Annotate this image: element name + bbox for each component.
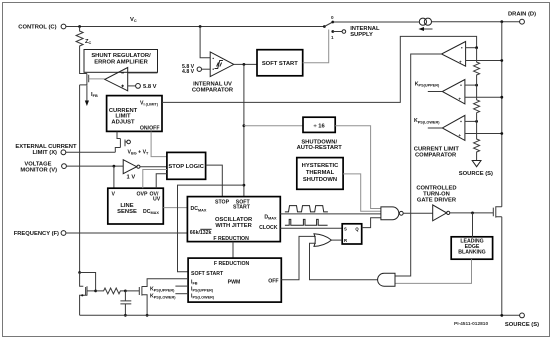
svg-text:4.8 V: 4.8 V	[182, 69, 195, 75]
wire divide16 to NAND	[335, 126, 381, 209]
svg-text:ERROR AMPLIFIER: ERROR AMPLIFIER	[94, 60, 148, 66]
wire Ifb with arrow	[86, 86, 88, 102]
svg-text:SOURCE (S): SOURCE (S)	[459, 171, 493, 177]
ground SOURCE (S) upper	[472, 161, 481, 167]
svg-text:+: +	[458, 97, 461, 102]
svg-text:INTERNAL UV: INTERNAL UV	[193, 81, 232, 87]
svg-text:SOFT START: SOFT START	[191, 271, 224, 277]
node chain taps	[475, 46, 478, 49]
transistor power MOSFET	[493, 206, 502, 217]
wire thermal shutdown to NAND	[343, 174, 381, 211]
node source junction	[500, 314, 503, 317]
wire threshold to UV comparator	[202, 68, 211, 70]
wire Vc to UV comparator input	[200, 27, 210, 58]
pin SOURCE (S) terminal bottom	[520, 313, 525, 318]
wire gate driver to power MOSFET gate	[450, 212, 494, 214]
svg-text:ADJUST: ADJUST	[111, 119, 135, 125]
node C junction	[78, 25, 81, 28]
wire NAND to gate driver	[403, 212, 433, 214]
pin CONTROL (C) terminal	[61, 24, 66, 29]
svg-text:V: V	[112, 191, 116, 197]
latch S-R flip flop	[342, 224, 362, 244]
current source high voltage supply	[419, 18, 426, 25]
wire top comparator output down to AND gate	[395, 54, 442, 276]
svg-text:FREQUENCY (F): FREQUENCY (F)	[14, 231, 59, 237]
wire X pin to transistor	[66, 151, 115, 153]
pin X terminal	[61, 150, 66, 155]
block divide by 16	[303, 117, 335, 132]
svg-text:THERMAL: THERMAL	[306, 170, 335, 176]
wire branch to PWM soft start input	[178, 185, 244, 272]
wire adjust block to X transistor	[117, 132, 120, 139]
block OSCILLATOR WITH JITTER	[187, 197, 280, 242]
wire shunt MOSFET gate to error amp	[89, 78, 105, 80]
wire line sense DCmax to oscillator	[163, 207, 187, 209]
block STOP LOGIC	[167, 152, 206, 179]
wire error amp + input to 5.8V	[128, 85, 136, 87]
comparator Kps(lower)	[442, 115, 465, 140]
node filter	[124, 290, 127, 293]
wire Kps(upper) output stub	[428, 91, 443, 93]
wire mid comparator - input to chain	[465, 84, 477, 86]
wire bottom comparator - input to chain	[465, 120, 477, 122]
op-amp error amplifier	[105, 68, 128, 91]
wire drain rail down to power MOSFET	[501, 22, 503, 207]
waveform CLOCK pulses	[285, 219, 328, 225]
svg-text:ON/OFF: ON/OFF	[140, 125, 160, 131]
resistor Zc	[76, 27, 83, 51]
svg-text:÷ 16: ÷ 16	[313, 123, 325, 129]
node drain junction	[500, 20, 503, 23]
wire switch lower contact to internal supply terminal	[333, 31, 342, 33]
resistor chain R1	[474, 48, 480, 85]
wire left rail: shunt MOSFET to bottom mirror	[79, 85, 81, 273]
node capacitor to rail	[124, 314, 127, 317]
svg-text:GATE DRIVER: GATE DRIVER	[417, 198, 457, 204]
node PWM soft start branch	[243, 184, 246, 187]
resistor chain R2	[474, 85, 480, 121]
node Vc branch to UV comparator	[199, 25, 202, 28]
block LEADING EDGE BLANKING	[451, 237, 492, 259]
svg-text:1: 1	[331, 35, 334, 40]
svg-text:SUPPLY: SUPPLY	[350, 32, 373, 38]
wire PWM OFF to OR gate	[281, 236, 315, 279]
terminal 5.8 V reference	[136, 84, 141, 89]
transistor shunt MOSFET	[80, 74, 89, 85]
svg-text:SOFT START: SOFT START	[262, 61, 298, 67]
pin V terminal	[62, 164, 67, 169]
wire V I(LIMIT): adjust block to comparator chain	[162, 36, 477, 102]
svg-text:PI-4511-012810: PI-4511-012810	[454, 321, 488, 327]
arrow current direction	[421, 28, 433, 30]
wire bottom source rail	[80, 314, 520, 316]
gate AND left-facing	[378, 273, 395, 286]
wire branch to divide-by-16	[244, 125, 303, 127]
comparator current limit (top)	[442, 42, 466, 67]
wire switch to current source	[333, 21, 419, 23]
pin F terminal	[61, 231, 66, 236]
wire Vc: C pin to supply switch	[66, 26, 324, 28]
svg-text:VBG + VT: VBG + VT	[128, 150, 150, 156]
svg-text:OFF: OFF	[268, 278, 278, 284]
hysteresis symbol	[215, 61, 223, 69]
svg-text:S: S	[344, 226, 347, 231]
wire V pin to 1V buffer	[67, 165, 124, 167]
svg-text:1 V: 1 V	[127, 175, 136, 181]
wire Dmax: oscillator to NAND	[280, 213, 381, 215]
wire Kps(lower) output stub	[428, 127, 443, 129]
wire bottom comparator + input to drain	[465, 133, 502, 135]
buffer controlled turn-on gate driver	[433, 205, 447, 221]
wire buffer output to stop logic	[140, 166, 167, 168]
comparator Kps(upper)	[442, 80, 465, 104]
block PWM	[188, 258, 281, 302]
svg-text:SHUNT REGULATOR/: SHUNT REGULATOR/	[91, 53, 151, 59]
svg-text:SHUTDOWN: SHUTDOWN	[303, 177, 337, 183]
terminal UV threshold	[197, 67, 201, 71]
svg-text:COMPARATOR: COMPARATOR	[415, 153, 457, 159]
svg-text:WITH JITTER: WITH JITTER	[215, 223, 252, 229]
wire LEB to AND gate	[395, 259, 472, 283]
waveform Dmax pulses	[285, 206, 328, 212]
wire oscillator F REDUCTION to PWM	[232, 242, 234, 259]
wire AND output to OR gate	[310, 243, 378, 280]
svg-text:STOP LOGIC: STOP LOGIC	[168, 164, 204, 170]
wire mid comparator + input to drain	[465, 96, 502, 98]
svg-text:AUTO-RESTART: AUTO-RESTART	[297, 145, 343, 151]
svg-text:F REDUCTION: F REDUCTION	[213, 236, 249, 242]
block HYSTERETIC THERMAL SHUTDOWN	[297, 158, 343, 190]
transistor X-limit	[115, 139, 127, 153]
node UV output junction	[243, 63, 246, 66]
transistor current mirror M2	[125, 279, 188, 316]
wire V junction down to line sense	[113, 166, 115, 188]
transistor current mirror M1	[78, 271, 81, 274]
gate OR	[314, 234, 331, 247]
svg-text:R: R	[344, 238, 347, 243]
resistor chain R3	[474, 121, 480, 160]
pin DRAIN (D) terminal	[520, 19, 525, 24]
svg-text:SENSE: SENSE	[117, 209, 137, 215]
buffer 1V comparator	[123, 160, 137, 174]
node gate driver junction	[471, 212, 474, 215]
svg-text:+: +	[458, 133, 461, 138]
svg-text:HYSTERETIC: HYSTERETIC	[302, 163, 340, 169]
svg-text:COMPARATOR: COMPARATOR	[192, 88, 234, 94]
wire F pin to oscillator	[66, 232, 187, 234]
block LINE SENSE	[108, 188, 164, 224]
wire OVP to stop logic	[143, 170, 167, 189]
block CURRENT LIMIT ADJUST	[107, 96, 162, 132]
svg-text:DRAIN (D): DRAIN (D)	[508, 12, 536, 18]
svg-text:MONITOR (V): MONITOR (V)	[20, 167, 57, 173]
wire OR output to latch R	[331, 239, 342, 241]
wire OV/UV to stop logic	[156, 174, 167, 189]
comparator internal UV	[210, 52, 234, 77]
node V junction	[113, 165, 116, 168]
wire top comparator - input to chain	[466, 47, 477, 49]
label box SHUNT REGULATOR/ERROR AMPLIFIER	[84, 50, 158, 73]
wire latch Q to NAND	[362, 218, 381, 228]
wire gate node to LEB	[472, 213, 474, 237]
wire CLOCK: oscillator to latch S	[280, 227, 342, 229]
svg-text:STOP: STOP	[215, 199, 230, 205]
wire UV output to soft start block	[234, 63, 257, 65]
svg-text:5.8 V: 5.8 V	[143, 84, 157, 90]
node drain taps	[500, 59, 503, 62]
svg-text:START: START	[233, 205, 251, 211]
terminal X transistor gate circle	[127, 140, 131, 144]
svg-text:SOURCE (S): SOURCE (S)	[505, 322, 539, 328]
switch internal supply	[323, 25, 326, 28]
svg-text:PWM: PWM	[228, 280, 241, 286]
svg-text:BLANKING: BLANKING	[458, 250, 485, 256]
wire soft start block to supply switch	[303, 30, 329, 63]
svg-text:+: +	[459, 60, 462, 65]
wire power MOSFET source down	[501, 217, 503, 316]
gate NAND main	[381, 207, 399, 220]
wire PWM Kps(upper) stub	[175, 285, 188, 287]
resistor jitter filter	[96, 288, 125, 294]
node divide16 branch	[243, 124, 246, 127]
wire top comparator + input to drain	[466, 60, 502, 62]
svg-text:66k/132k: 66k/132k	[190, 230, 212, 236]
svg-text:LIMIT (X): LIMIT (X)	[33, 150, 58, 156]
terminal INTERNAL SUPPLY	[342, 30, 346, 34]
svg-text:CONTROL (C): CONTROL (C)	[18, 25, 56, 31]
svg-text:OVP: OVP	[137, 191, 148, 197]
svg-text:0: 0	[331, 15, 334, 20]
wire stop logic to oscillator STOP	[206, 165, 223, 197]
wire error amp inverting input to label box	[128, 72, 158, 74]
svg-text:F REDUCTION: F REDUCTION	[214, 261, 250, 267]
svg-text:CLOCK: CLOCK	[259, 225, 278, 231]
wire left rail: Zc to shunt MOSFET	[80, 50, 87, 74]
capacitor jitter filter	[120, 291, 131, 315]
svg-text:UV: UV	[153, 197, 161, 203]
wire ON/OFF to stop logic	[151, 132, 167, 157]
wire current source to drain node	[432, 21, 520, 23]
wire PWM Kps(lower) stub	[175, 293, 188, 295]
block SOFT START	[257, 50, 303, 76]
wire soft-start net vertical	[243, 64, 245, 196]
